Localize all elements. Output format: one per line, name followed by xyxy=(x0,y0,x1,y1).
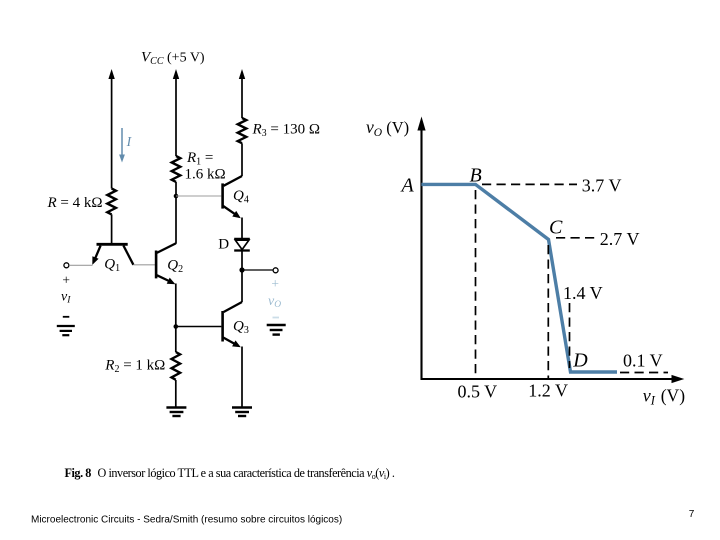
svg-text:Q1: Q1 xyxy=(104,256,120,274)
svg-text:D: D xyxy=(572,350,588,372)
svg-text:R1 =: R1 = xyxy=(186,150,213,168)
minus (input) xyxy=(63,316,70,318)
ground (output) xyxy=(267,325,286,335)
wire node down to Q2 collector xyxy=(175,196,177,244)
svg-text:vO: vO xyxy=(268,294,281,310)
svg-text:R3 = 130 Ω: R3 = 130 Ω xyxy=(252,122,321,140)
wire: middle supply rail with arrow xyxy=(173,69,179,156)
svg-text:2.7 V: 2.7 V xyxy=(600,229,640,249)
wire R to Q1 base xyxy=(111,214,113,243)
svg-text:0.5 V: 0.5 V xyxy=(458,381,498,401)
svg-text:vI: vI xyxy=(61,290,71,306)
resistor R (4 kOhm) xyxy=(107,189,116,215)
x-axis vI xyxy=(421,375,685,383)
svg-text:1.2 V: 1.2 V xyxy=(528,381,568,401)
y-axis vO xyxy=(417,117,425,380)
node: R1 / Q2 collector / Q4 base xyxy=(174,194,179,199)
svg-text:Q4: Q4 xyxy=(233,188,249,206)
ground (R2) xyxy=(166,408,186,417)
dashed level 3.7 V xyxy=(482,183,577,185)
wire R2 to ground xyxy=(175,380,177,407)
wire diode to output node xyxy=(241,252,243,271)
dashed vertical at 0.5 V xyxy=(475,190,477,378)
diode D xyxy=(234,239,250,251)
svg-text:+: + xyxy=(62,273,70,288)
transfer curve xyxy=(421,184,617,372)
svg-text:I: I xyxy=(126,134,133,149)
wire: right supply rail with arrow xyxy=(239,69,245,118)
svg-text:C: C xyxy=(549,216,563,238)
wire output node down to Q3 collector xyxy=(224,270,242,312)
svg-text:R2 = 1 kΩ: R2 = 1 kΩ xyxy=(104,358,165,376)
svg-text:A: A xyxy=(400,175,415,197)
wire node to output terminal xyxy=(242,269,273,271)
dashed vertical at 1.4 V xyxy=(569,303,571,368)
wire Q1 collector to Q2 base xyxy=(133,264,155,266)
svg-text:Microelectronic Circuits - Sed: Microelectronic Circuits - Sedra/Smith (… xyxy=(31,515,342,526)
wire node down to R2 xyxy=(175,327,177,353)
svg-text:Fig. 8 O inversor lógico TTL e: Fig. 8 O inversor lógico TTL e a sua car… xyxy=(65,466,395,481)
node: output junction xyxy=(239,267,244,272)
wire input terminal to Q1 emitter xyxy=(69,264,92,266)
wire R3 down to Q4 collector xyxy=(224,143,242,186)
dashed vertical at 1.2 V xyxy=(547,245,549,378)
minus (output) xyxy=(273,317,280,319)
svg-text:R = 4 kΩ: R = 4 kΩ xyxy=(47,195,103,211)
transistor Q3 xyxy=(223,311,241,347)
svg-text:1.6 kΩ: 1.6 kΩ xyxy=(185,167,226,183)
node: Q2 emitter / R2 / Q3 base xyxy=(174,324,179,329)
ground (input source) xyxy=(57,326,75,335)
transistor Q1 xyxy=(92,244,133,265)
svg-text:3.7 V: 3.7 V xyxy=(582,175,622,195)
svg-text:vI (V): vI (V) xyxy=(643,385,686,407)
current arrow I xyxy=(119,128,125,163)
svg-text:0.1 V: 0.1 V xyxy=(623,351,663,371)
output terminal circle xyxy=(273,268,278,273)
svg-text:1.4 V: 1.4 V xyxy=(563,283,603,303)
wire: left supply rail with arrow xyxy=(108,69,114,189)
dashed level 0.1 V xyxy=(620,372,668,374)
wire Q2 emitter down to node xyxy=(175,284,177,327)
resistor R3 (130 Ohm) xyxy=(238,118,247,143)
wire R1 to junction node xyxy=(175,182,177,196)
input terminal circle xyxy=(64,263,69,268)
svg-text:vO (V): vO (V) xyxy=(366,117,409,139)
svg-text:VCC (+5 V): VCC (+5 V) xyxy=(141,50,205,68)
ground (Q3) xyxy=(232,408,252,417)
svg-text:Q3: Q3 xyxy=(233,319,249,337)
svg-text:7: 7 xyxy=(689,509,695,520)
wire node to Q4 base xyxy=(176,195,221,197)
svg-text:+: + xyxy=(271,276,279,291)
dashed level 2.7 V xyxy=(556,237,597,239)
transistor Q4 xyxy=(223,183,241,218)
wire Q3 emitter to ground xyxy=(241,347,243,408)
wire Q4 emitter to diode xyxy=(241,218,243,239)
wire node to Q3 base xyxy=(176,326,222,328)
svg-text:Q2: Q2 xyxy=(167,258,183,276)
resistor R2 (1 kOhm) xyxy=(172,352,181,380)
resistor R1 (1.6 kOhm) xyxy=(172,156,181,182)
svg-text:B: B xyxy=(470,164,482,186)
svg-text:D: D xyxy=(218,237,229,253)
transistor Q2 xyxy=(156,243,176,284)
